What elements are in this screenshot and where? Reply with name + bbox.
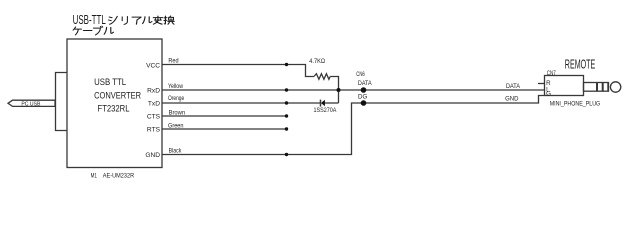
svg-text:Yellow: Yellow [168, 83, 183, 90]
svg-text:CN6: CN6 [356, 71, 365, 78]
svg-text:AE-UM232R: AE-UM232R [103, 173, 134, 180]
svg-text:DATA: DATA [506, 83, 521, 90]
svg-text:4.7KΩ: 4.7KΩ [309, 58, 325, 65]
svg-text:USB TTL: USB TTL [94, 77, 126, 88]
svg-text:CONVERTER: CONVERTER [94, 91, 141, 102]
svg-text:DG: DG [358, 93, 367, 100]
svg-text:USB-TTL: USB-TTL [73, 12, 106, 27]
svg-text:G: G [546, 91, 551, 98]
svg-text:DATA: DATA [358, 80, 372, 87]
svg-text:CTS: CTS [147, 113, 161, 120]
svg-text:Orenge: Orenge [168, 95, 184, 102]
svg-text:PC USB: PC USB [21, 101, 40, 107]
svg-text:Brown: Brown [169, 110, 186, 117]
svg-text:RxD: RxD [147, 88, 160, 95]
svg-text:TxD: TxD [148, 101, 160, 108]
svg-text:Green: Green [168, 122, 184, 129]
svg-text:GND: GND [145, 152, 160, 159]
svg-text:M1: M1 [91, 173, 98, 180]
svg-text:1SS270A: 1SS270A [314, 107, 337, 114]
svg-text:Red: Red [168, 58, 178, 65]
svg-text:VCC: VCC [146, 62, 160, 69]
svg-text:GND: GND [505, 95, 519, 102]
svg-text:FT232RL: FT232RL [98, 103, 130, 114]
svg-text:MINI_PHONE_PLUG: MINI_PHONE_PLUG [550, 100, 601, 107]
svg-text:Black: Black [169, 148, 182, 155]
svg-text:RTS: RTS [147, 126, 161, 133]
svg-text:CN7: CN7 [547, 70, 556, 77]
svg-text:REMOTE: REMOTE [565, 57, 596, 71]
